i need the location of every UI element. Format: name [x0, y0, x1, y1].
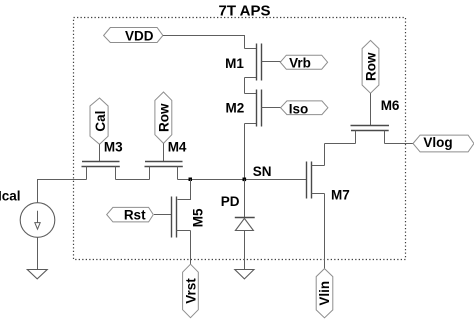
- svg-text:Iso: Iso: [289, 102, 309, 117]
- wire SN to photodiode: [244, 180, 246, 218]
- transistor M5: [172, 197, 191, 238]
- label VDD: [104, 28, 163, 44]
- svg-text:Vlog: Vlog: [423, 135, 452, 150]
- wire M7 to M6: [325, 143, 356, 145]
- transistor M1: [245, 44, 281, 81]
- label Vrb: [280, 55, 327, 70]
- svg-text:Row: Row: [363, 52, 378, 81]
- wire rail to Ical: [38, 180, 87, 203]
- label Cal: [90, 98, 108, 144]
- label Vlin: [316, 269, 333, 318]
- transistor M2: [245, 90, 282, 127]
- svg-text:M2: M2: [226, 100, 245, 115]
- wire Row to M6 gate: [370, 93, 372, 125]
- svg-text:VDD: VDD: [125, 28, 154, 43]
- label Iso: [281, 101, 328, 117]
- wire rail M4 to M7 gate: [178, 179, 307, 181]
- svg-text:M3: M3: [104, 140, 123, 155]
- label Row: [155, 92, 172, 143]
- svg-text:Cal: Cal: [93, 111, 108, 132]
- label Vlog: [413, 135, 474, 152]
- svg-text:Ical: Ical: [0, 188, 21, 203]
- junction dot M5 drain: [189, 178, 193, 182]
- wire M5 source to Vrst: [190, 231, 192, 265]
- svg-text:PD: PD: [221, 194, 240, 209]
- wire M6 to Vlog: [385, 143, 414, 145]
- svg-text:Vrb: Vrb: [289, 56, 311, 71]
- label Row right: [362, 40, 379, 93]
- ground below PD: [235, 270, 254, 279]
- transistor M7: [307, 162, 325, 199]
- svg-text:Vlin: Vlin: [317, 281, 332, 306]
- wire M7 drain riser: [324, 144, 326, 166]
- wire Cal to M3 gate: [99, 144, 101, 161]
- svg-text:M5: M5: [190, 208, 205, 227]
- wire M2 source to node SN: [244, 124, 246, 180]
- label Vrst: [183, 264, 199, 318]
- wire photodiode to ground: [244, 231, 246, 270]
- svg-text:SN: SN: [253, 164, 272, 179]
- svg-text:Vrst: Vrst: [183, 278, 198, 304]
- wire Rst to M5 gate: [154, 214, 172, 216]
- current source Ical: [20, 203, 55, 238]
- wire Ical to ground: [37, 237, 39, 269]
- wire junction to M5 drain: [178, 180, 191, 200]
- pixel boundary dashed box: [74, 18, 406, 260]
- junction dot SN: [243, 178, 247, 182]
- svg-text:Rst: Rst: [124, 208, 146, 223]
- svg-text:M7: M7: [331, 188, 350, 203]
- transistor M4: [145, 162, 183, 180]
- svg-text:M1: M1: [225, 56, 244, 71]
- transistor M3: [82, 162, 120, 180]
- svg-text:Row: Row: [156, 103, 171, 132]
- svg-text:M6: M6: [381, 98, 400, 113]
- wire Row to M4 gate: [163, 143, 165, 161]
- wire M3 to M4: [116, 179, 150, 181]
- ground below Ical: [27, 270, 47, 279]
- transistor M6: [351, 126, 390, 144]
- wire VDD to M1 drain: [163, 36, 245, 49]
- svg-text:M4: M4: [168, 140, 187, 155]
- svg-text:7T APS: 7T APS: [219, 2, 271, 19]
- photodiode PD: [235, 218, 255, 231]
- label Rst: [107, 207, 154, 222]
- wire M1 source to M2 drain: [244, 78, 246, 94]
- wire M7 source to Vlin: [324, 194, 326, 269]
